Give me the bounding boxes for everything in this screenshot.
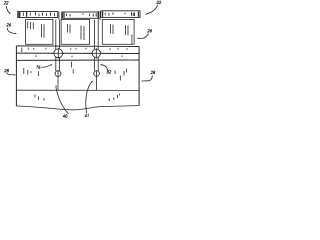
label 22 right bbox=[145, 1, 161, 15]
body 1 (left unit body) bbox=[26, 19, 53, 44]
hanger strip top between cap1 and cap2 bbox=[59, 12, 62, 20]
left pivot circle upper (crosshair) bbox=[53, 48, 65, 59]
hanger strip top between cap2 and cap3 bbox=[99, 11, 100, 20]
cap 2 (top bar of middle unit) bbox=[63, 12, 98, 18]
label 26 left bbox=[7, 23, 17, 34]
middle band plate bbox=[16, 46, 139, 61]
right pivot circle lower bbox=[93, 71, 100, 77]
lower box hatch ticks lower-left bbox=[35, 95, 44, 101]
label 28 right bbox=[141, 71, 155, 82]
right hanger lower rod bbox=[96, 76, 98, 90]
lower box hatch ticks lower-right bbox=[109, 94, 119, 101]
body 2 (middle unit body) bbox=[61, 19, 89, 44]
right pivot circle upper (crosshair) bbox=[91, 48, 102, 58]
lower box (main frame) bbox=[16, 46, 139, 110]
label 26 right bbox=[137, 29, 152, 39]
label 28 left bbox=[4, 69, 16, 75]
body 3 (right unit body) bbox=[102, 19, 134, 44]
lower box hatch ticks upper-left bbox=[24, 62, 73, 76]
left pivot circle lower bbox=[55, 71, 62, 77]
left hanger strip (vertical link) bbox=[56, 20, 60, 71]
label 22 left bbox=[4, 1, 11, 14]
label 76 bbox=[36, 64, 52, 69]
label 82 bbox=[100, 64, 111, 73]
left hanger lower rod bbox=[57, 77, 59, 91]
label 41 bbox=[85, 81, 93, 118]
cap 3 (top bar of right unit) bbox=[101, 11, 140, 18]
lower box hatch ticks upper-right bbox=[115, 69, 127, 81]
label 40 bbox=[55, 85, 69, 117]
right hanger strip (vertical link) bbox=[94, 20, 98, 71]
cap 1 (top bar of left unit) bbox=[18, 12, 58, 18]
